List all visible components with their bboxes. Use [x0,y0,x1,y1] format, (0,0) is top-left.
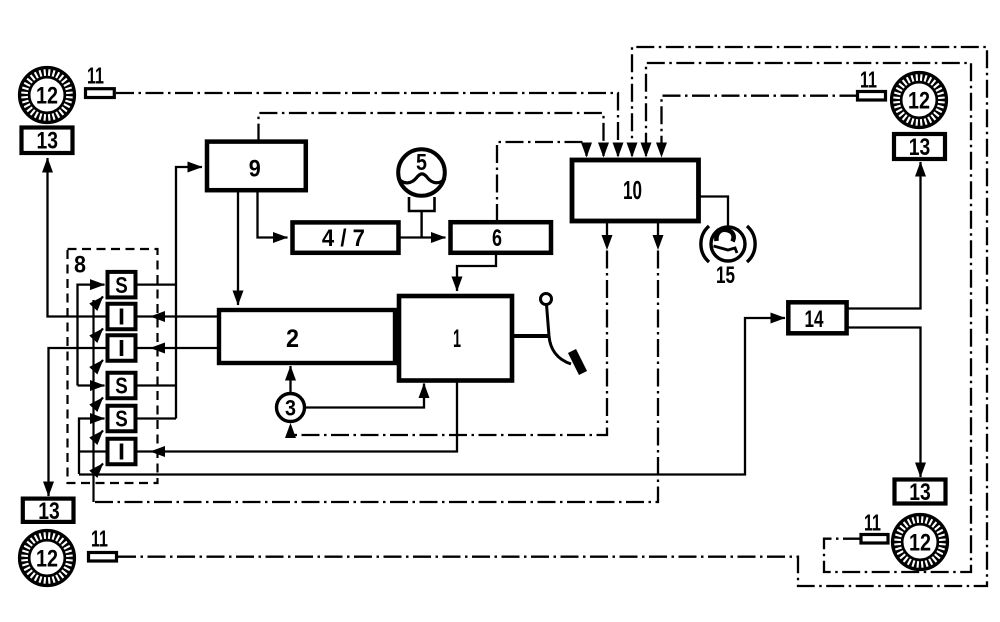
diagonal arrow into S3 [94,431,104,442]
wire: S-bus A feeding S2 [78,384,105,386]
box 6 [451,222,552,253]
box 13 bottom-left [23,498,74,525]
svg-text:11: 11 [860,67,877,93]
box 10 ECU [572,160,699,221]
valve box S1 [108,272,136,298]
wire: S-bus A feeding S1 [78,285,105,386]
wire: box 9 to box 4/7 [258,190,288,238]
svg-text:15: 15 [716,262,735,289]
wire: box 9 to box 2 [237,190,239,305]
svg-text:13: 13 [37,128,59,155]
circle 3 pump [277,394,305,422]
sensor 11 top-right [858,67,886,101]
box 13 top-right [894,134,945,161]
wire: I3 left to bus B [79,450,108,452]
box 1 master cylinder [399,296,512,381]
valve box S2 [108,373,136,399]
valve box I2 [108,335,136,361]
wire: S1 right to riser [136,283,177,285]
wire: box 4/7 to box 6 [399,236,446,238]
svg-text:S: S [115,406,128,432]
diagonal arrow into I1 [94,329,104,340]
sensor ring 12 top-right [893,74,944,125]
valve box S3 [108,406,136,432]
signal: box 10 to pump 3 [291,221,608,435]
diagonal arrow into I2 [94,360,104,371]
reservoir 5 [398,149,445,238]
diagonal arrow into S2 [94,398,104,409]
mid-line arrow on I3 wire [150,446,165,457]
wire: box 6 to box 1 [457,253,496,291]
sensor ring 12 bottom-left [21,532,72,583]
sensor ring 12 top-left [21,69,72,120]
svg-text:10: 10 [623,175,642,205]
wire: S2 right to riser [136,384,177,386]
svg-text:9: 9 [249,156,261,183]
valve box I1 [108,304,136,330]
svg-text:13: 13 [909,479,931,506]
svg-text:6: 6 [492,225,502,252]
box 4/7 [293,222,399,252]
box 14 [788,302,846,333]
svg-text:I: I [118,304,125,330]
svg-text:1: 1 [453,325,461,353]
svg-text:S: S [115,373,128,399]
wire: S-bus B feeding S3 [79,419,105,475]
arrowhead into box 10 pin 2 [598,143,609,158]
signal: sensor 11 top-left to box 10 [116,93,618,156]
svg-text:S: S [115,272,128,298]
mid-line arrow on I2 wire [150,343,165,354]
sensor 11 bottom-left [89,526,117,562]
diagonal arrow into S1 [94,297,104,308]
wire: box 2 to I1 [136,315,220,317]
wire: group line to box 14 [79,318,785,475]
arrowhead into pump 3 [285,423,296,438]
svg-text:13: 13 [909,134,931,161]
sensor 11 top-left [86,63,115,98]
box 13 bottom-right [895,479,946,506]
wire: box 10 to lamp 15 [699,197,729,228]
svg-text:3: 3 [285,396,296,421]
diagonal arrow into I3 [94,464,104,475]
warning lamp 15 [701,226,755,289]
svg-text:13: 13 [38,498,60,525]
arrowhead into box 10 pin 4 [627,143,638,158]
sensor ring 12 bottom-right [894,516,945,567]
wire: circle 3 to box 1 [305,384,425,408]
wire: S3 right to riser [136,417,177,419]
brake pedal lever [512,294,583,374]
wire: circle 3 to box 2 [289,366,291,393]
valve box I3 [108,439,136,465]
svg-text:11: 11 [87,63,104,89]
svg-text:8: 8 [74,252,86,279]
box 9 [207,142,306,191]
arrowhead into box 10 pin 6 [656,143,667,158]
arrowhead into box 10 pin 1 [581,143,592,158]
wire: box 14 upper output to box 13 top-right [847,162,921,309]
arrowhead into box 10 pin 5 [641,143,652,158]
valve control bus [92,300,94,502]
wire: box 2 to I2 [136,347,220,349]
svg-text:11: 11 [864,510,881,536]
signal: sensor 11 top-right to box 10 [662,96,858,156]
svg-text:5: 5 [416,149,427,175]
direction arrow below box 10 right output [653,235,664,250]
svg-text:4 / 7: 4 / 7 [322,225,365,252]
svg-text:14: 14 [805,306,824,333]
box 13 top-left [22,128,73,155]
svg-text:I: I [118,335,125,361]
mid-line arrow on I1 wire [150,311,165,322]
signal: box 9 to box 10 [259,113,604,156]
signal: sensor 11 bottom-left to box 10 [118,47,987,586]
wire: I1 left to box 13 top-left [48,158,108,317]
signal: sensor 11 bottom-right to box 10 [646,63,971,572]
signal: box 10 to valve bus [94,221,659,502]
wire: box 14 lower output to box 13 bottom-right [847,328,921,478]
box 2 [219,310,395,363]
group 8 dashed frame [68,249,158,483]
arrowhead into box 10 pin 3 [613,143,624,158]
wire: box 1 bottom to I3 [136,381,458,452]
direction arrow below box 10 left output [602,235,613,250]
signal: box 6 to box 10 [497,142,587,222]
svg-text:2: 2 [286,325,299,353]
svg-text:I: I [118,439,125,465]
wire: I2 left to box 13 bottom-left [49,348,108,496]
svg-text:11: 11 [91,526,108,552]
wire: riser to box 9 input [176,167,202,419]
sensor 11 bottom-right [861,510,888,544]
